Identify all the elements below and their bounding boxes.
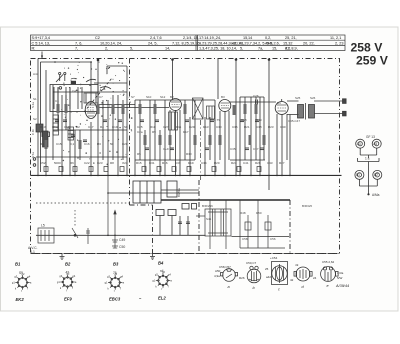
svg-text:R15: R15 <box>136 161 142 165</box>
svg-text:C20: C20 <box>122 142 128 146</box>
svg-text:R:: R: <box>32 47 36 51</box>
svg-text:25: 25 <box>265 267 269 271</box>
svg-text:C58,C57: C58,C57 <box>219 265 231 269</box>
svg-text:C2a: C2a <box>137 130 143 134</box>
svg-text:2,1/4, 18,: 2,1/4, 18, <box>183 36 199 40</box>
svg-text:A50: A50 <box>215 269 221 273</box>
svg-text:R48: R48 <box>240 211 246 215</box>
svg-text:C41: C41 <box>243 161 249 165</box>
svg-text:C52: C52 <box>40 161 46 165</box>
svg-text:2, 23: 2, 23 <box>335 41 343 45</box>
svg-text:R4: R4 <box>100 125 104 129</box>
svg-text:21,: 21, <box>285 47 290 51</box>
svg-text:C27: C27 <box>163 125 169 129</box>
svg-text:S26: S26 <box>310 96 316 100</box>
svg-text:a42: a42 <box>266 275 271 279</box>
svg-text:R27: R27 <box>279 161 285 165</box>
svg-text:+C54: +C54 <box>270 256 278 260</box>
svg-text:R21: R21 <box>244 125 250 129</box>
svg-text:S 5a: S 5a <box>31 152 35 158</box>
svg-text:C25: C25 <box>137 125 143 129</box>
svg-text:R2: R2 <box>76 125 80 129</box>
svg-text:C43: C43 <box>267 161 273 165</box>
svg-text:C36: C36 <box>232 125 238 129</box>
svg-text:15,32: 15,32 <box>283 41 293 45</box>
svg-text:4 Ra: 4 Ra <box>337 271 344 275</box>
svg-text:e: e <box>327 284 329 288</box>
svg-text:4.7S: 4.7S <box>214 118 220 122</box>
svg-text:C19: C19 <box>112 125 118 129</box>
svg-text:0,1: 0,1 <box>70 142 75 146</box>
svg-text:R5: R5 <box>137 152 141 156</box>
svg-text:S:9+17,3,4: S:9+17,3,4 <box>32 36 50 40</box>
svg-text:C 4b: C 4b <box>31 129 35 135</box>
svg-text:C35: C35 <box>230 147 236 151</box>
svg-text:n9: n9 <box>295 263 299 267</box>
svg-text:9,23,29,25,28,44,3a,21,41,23,7: 9,23,29,25,28,44,3a,21,41,23,7,34,2, 5, … <box>199 41 273 45</box>
svg-text:R13: R13 <box>203 125 209 129</box>
svg-text:R11: R11 <box>176 125 182 129</box>
svg-text:C45-C47: C45-C47 <box>288 119 300 123</box>
svg-text:17:14,19,,24,: 17:14,19,,24, <box>199 36 221 40</box>
svg-text:EK2: EK2 <box>16 297 25 302</box>
svg-text:R24: R24 <box>231 161 237 165</box>
svg-text:5/W: 5/W <box>337 276 343 280</box>
svg-text:5,: 5, <box>130 47 133 51</box>
svg-text:C26: C26 <box>253 94 259 98</box>
svg-text:B1: B1 <box>15 262 21 267</box>
svg-text:R20: R20 <box>214 161 220 165</box>
svg-text:C50: C50 <box>119 245 125 249</box>
svg-text:R3: R3 <box>97 142 101 146</box>
svg-text:C14: C14 <box>64 125 70 129</box>
svg-text:2,4,7,6: 2,4,7,6 <box>150 36 162 40</box>
svg-text:a: a <box>228 285 230 289</box>
svg-text:1,3,47,3,25, 18, 10,14,: 1,3,47,3,25, 18, 10,14, <box>199 47 237 51</box>
svg-text:10,20,14, 24,: 10,20,14, 24, <box>100 41 122 45</box>
svg-text:15,: 15, <box>272 47 277 51</box>
svg-text:5000: 5000 <box>54 161 61 165</box>
svg-text:S9: S9 <box>19 271 23 275</box>
svg-text:C34: C34 <box>201 161 207 165</box>
svg-text:B/R/256: B/R/256 <box>202 204 213 208</box>
svg-text:B2: B2 <box>374 173 378 177</box>
svg-text:B1: B1 <box>356 173 360 177</box>
svg-text:R30: R30 <box>186 152 192 156</box>
svg-text:7, 6,: 7, 6, <box>75 41 82 45</box>
svg-text:R26: R26 <box>239 276 245 280</box>
svg-text:24: 24 <box>313 276 317 280</box>
svg-text:C7: C7 <box>99 95 103 99</box>
svg-text:C24: C24 <box>122 161 128 165</box>
svg-text:C49: C49 <box>119 238 125 242</box>
svg-text:7a,: 7a, <box>258 47 263 51</box>
svg-text:20, 22,: 20, 22, <box>303 41 315 45</box>
svg-text:B3: B3 <box>113 262 119 267</box>
svg-text:0,2,: 0,2, <box>265 36 271 40</box>
svg-text:n4: n4 <box>160 269 164 273</box>
svg-text:C40: C40 <box>280 125 286 129</box>
svg-text:A/Ma: A/Ma <box>372 193 380 197</box>
svg-text:S10: S10 <box>146 95 152 99</box>
svg-text:C1: C1 <box>55 99 59 103</box>
svg-text:S6: S6 <box>124 125 128 129</box>
svg-text:B/R/4/6: B/R/4/6 <box>302 204 312 208</box>
svg-text:7,: 7, <box>75 47 78 51</box>
svg-text:R49: R49 <box>256 118 262 122</box>
svg-text:1 a: 1 a <box>365 157 370 161</box>
svg-text:42: 42 <box>66 271 70 275</box>
svg-text:GF 13: GF 13 <box>366 135 375 139</box>
svg-text:R19: R19 <box>188 161 194 165</box>
svg-text:25, 21,: 25, 21, <box>285 36 297 40</box>
svg-text:R18: R18 <box>241 118 247 122</box>
svg-text:R50: R50 <box>256 211 262 215</box>
svg-text:R9: R9 <box>152 130 156 134</box>
svg-text:24, 5,: 24, 5, <box>148 41 158 45</box>
svg-text:B4: B4 <box>277 101 281 105</box>
svg-text:C38: C38 <box>256 125 262 129</box>
svg-text:C+9 R1: C+9 R1 <box>163 147 174 151</box>
svg-text:C17: C17 <box>88 125 94 129</box>
svg-text:S2: S2 <box>33 117 37 121</box>
svg-text:C29: C29 <box>189 125 195 129</box>
svg-text:C2: C2 <box>95 36 100 40</box>
svg-text:C55 2,62: C55 2,62 <box>322 260 335 264</box>
svg-text:c: c <box>278 288 280 292</box>
svg-text:C15: C15 <box>56 142 62 146</box>
svg-text:B2: B2 <box>170 95 174 99</box>
svg-text:11, 2,1: 11, 2,1 <box>330 36 341 40</box>
svg-text:b: b <box>253 286 255 290</box>
svg-text:C23: C23 <box>97 161 103 165</box>
svg-text:C16: C16 <box>84 142 90 146</box>
svg-text:50: 50 <box>110 142 114 146</box>
svg-text:C30: C30 <box>216 125 222 129</box>
svg-text:C33: C33 <box>175 161 181 165</box>
svg-text:S41: S41 <box>206 217 212 221</box>
svg-text:B3: B3 <box>221 95 225 99</box>
svg-text:A3: A3 <box>357 142 361 146</box>
svg-text:258 V: 258 V <box>351 41 384 55</box>
svg-text:S1: S1 <box>33 97 37 101</box>
svg-text:S7: S7 <box>131 95 135 99</box>
svg-text:C31: C31 <box>149 161 155 165</box>
svg-text:S 2a: S 2a <box>31 102 35 108</box>
svg-text:C4: C4 <box>72 89 76 93</box>
svg-text:C58: C58 <box>242 237 248 241</box>
svg-text:C22: C22 <box>84 161 90 165</box>
svg-text:C37: C37 <box>253 147 259 151</box>
svg-text:B4: B4 <box>158 261 164 266</box>
svg-text:EF9: EF9 <box>64 297 72 302</box>
svg-text:C 5:14, 13,: C 5:14, 13, <box>32 41 51 45</box>
svg-text:C56: C56 <box>270 237 276 241</box>
svg-text:R23: R23 <box>268 125 274 129</box>
svg-text:R1: R1 <box>40 142 44 146</box>
svg-text:C1a: C1a <box>52 125 58 129</box>
svg-text:C13: C13 <box>40 125 46 129</box>
svg-text:B/259a: B/259a <box>177 188 181 197</box>
svg-text:14,: 14, <box>165 47 170 51</box>
svg-text:EL2: EL2 <box>158 296 166 301</box>
svg-text:7,12, 8,25,19,16,: 7,12, 8,25,19,16, <box>172 41 201 45</box>
svg-text:R6: R6 <box>70 161 74 165</box>
svg-text:R10: R10 <box>150 125 156 129</box>
svg-text:R8: R8 <box>110 161 114 165</box>
svg-text:L5: L5 <box>41 224 45 228</box>
svg-text:76: 76 <box>113 271 117 275</box>
svg-text:S12: S12 <box>160 95 166 99</box>
svg-text:4,9a: 4,9a <box>214 274 220 278</box>
svg-text:A/39/44: A/39/44 <box>335 284 349 288</box>
svg-text:A4: A4 <box>373 142 377 146</box>
svg-text:5,: 5, <box>240 47 243 51</box>
svg-text:R17: R17 <box>183 130 189 134</box>
svg-text:42: 42 <box>290 278 294 282</box>
svg-text:S25: S25 <box>295 96 301 100</box>
svg-text:R16: R16 <box>162 161 168 165</box>
svg-text:R26: R26 <box>255 161 261 165</box>
svg-text:EBC3: EBC3 <box>109 297 121 302</box>
svg-text:B2: B2 <box>65 262 71 267</box>
svg-text:14: 14 <box>248 36 252 40</box>
svg-text:Ant: Ant <box>33 72 38 76</box>
svg-text:C50,C7: C50,C7 <box>246 261 257 265</box>
svg-text:2,: 2, <box>105 47 108 51</box>
svg-text:259 V: 259 V <box>356 54 389 68</box>
